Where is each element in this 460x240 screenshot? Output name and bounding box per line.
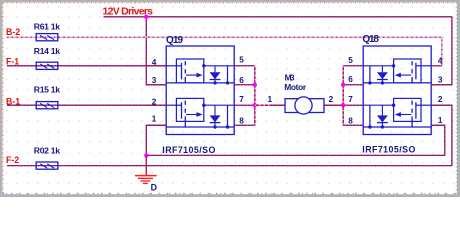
svg-text:5: 5 xyxy=(239,55,244,64)
mosfet Q19.A with body diode xyxy=(166,59,234,85)
svg-text:IRF7105/SO: IRF7105/SO xyxy=(162,145,215,155)
svg-text:D: D xyxy=(151,182,157,192)
resistor R61 xyxy=(34,21,60,41)
svg-text:7: 7 xyxy=(239,95,244,104)
svg-text:M3: M3 xyxy=(285,72,295,82)
svg-text:Motor: Motor xyxy=(284,82,307,92)
svg-text:F-2: F-2 xyxy=(6,155,19,165)
svg-text:6: 6 xyxy=(239,76,244,85)
Q18 pin numbers xyxy=(348,56,443,126)
junction ground node xyxy=(144,153,148,157)
junction Q18 pin 6 node xyxy=(341,83,345,87)
resistor R14 xyxy=(34,46,60,70)
svg-text:4: 4 xyxy=(438,56,443,65)
junction Q19 pin 7 motor node xyxy=(253,103,257,107)
ground xyxy=(135,155,157,183)
wire Q18 drain pins jumper (selected) xyxy=(342,66,344,126)
svg-text:4: 4 xyxy=(152,58,157,67)
Q19 right pin stubs (pins 5,6,7,8) xyxy=(234,66,255,126)
wire Q19 pin 1 to ground xyxy=(146,125,166,155)
junction 12V rail / Q19 drop xyxy=(144,15,148,19)
svg-text:8: 8 xyxy=(348,117,353,126)
wire motor to Q18 output (selected) xyxy=(324,104,343,106)
svg-text:Q19: Q19 xyxy=(166,35,183,46)
svg-text:R02 1k: R02 1k xyxy=(34,146,60,156)
svg-text:2: 2 xyxy=(438,95,443,104)
wire ground rail to Q18 pin 1 xyxy=(146,125,445,155)
transistor array Q18 body xyxy=(363,46,431,135)
resistor R15 xyxy=(34,84,60,108)
wire Q19 output to motor (selected) xyxy=(255,104,285,106)
mosfet Q19.B with body diode xyxy=(166,98,234,128)
junction Q19 pin 6 node xyxy=(253,83,257,87)
svg-text:R14 1k: R14 1k xyxy=(34,46,60,56)
svg-text:1: 1 xyxy=(268,95,273,104)
svg-text:1: 1 xyxy=(152,114,157,123)
motor M3 xyxy=(268,72,339,114)
svg-text:2: 2 xyxy=(152,98,157,107)
wire Q19 drain pins jumper (selected) xyxy=(254,66,256,126)
wire 12V down to Q19 pin 3 xyxy=(146,17,166,85)
svg-text:1: 1 xyxy=(438,116,443,125)
svg-text:R15 1k: R15 1k xyxy=(34,84,60,94)
transistor array Q19 body xyxy=(166,46,234,135)
svg-text:2: 2 xyxy=(329,95,334,104)
mosfet Q18.B with body diode xyxy=(363,98,431,128)
wire F-1 to Q19 pin 4 xyxy=(7,65,166,67)
svg-text:7: 7 xyxy=(348,95,353,104)
svg-text:IRF7105/SO: IRF7105/SO xyxy=(362,144,415,154)
svg-text:Q18: Q18 xyxy=(362,34,379,45)
Q19 left pin stubs (pins 4,3,2,1) xyxy=(146,66,166,126)
wire F-2 to Q18 pin 2 xyxy=(7,105,452,165)
junction Q18 pin 7 motor node xyxy=(341,103,345,107)
svg-text:B-2: B-2 xyxy=(6,27,20,37)
svg-text:3: 3 xyxy=(152,76,157,85)
svg-text:3: 3 xyxy=(438,75,443,84)
Q18 right pin stubs (pins 4,3,2,1) xyxy=(431,66,452,126)
wire B-1 to Q19 pin 2 xyxy=(7,104,166,106)
wire B-2 net (selected) to Q18 pin 4 xyxy=(7,37,442,66)
wire 12V rail xyxy=(104,16,452,18)
svg-text:6: 6 xyxy=(348,75,353,84)
svg-text:5: 5 xyxy=(348,56,353,65)
wire 12V down to Q18 pin 3 xyxy=(431,17,452,85)
svg-text:8: 8 xyxy=(239,117,244,126)
resistor R02 xyxy=(34,146,60,170)
svg-text:F-1: F-1 xyxy=(6,56,19,66)
Q19 pin numbers xyxy=(152,55,245,125)
Q18 left pin stubs (pins 5,6,7,8) xyxy=(343,66,363,126)
mosfet Q18.A with body diode xyxy=(363,59,431,85)
svg-text:R61 1k: R61 1k xyxy=(34,21,60,31)
